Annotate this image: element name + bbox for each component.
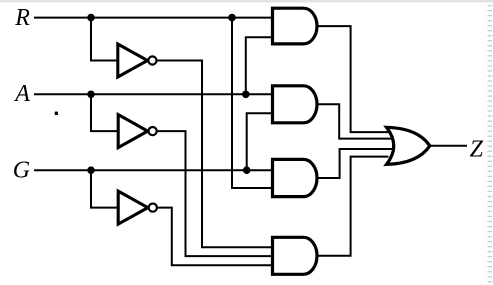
wire NOT3 input branch	[91, 170, 119, 207]
wire AND1 output to OR input 1	[316, 26, 389, 132]
node dot A to AND1	[242, 91, 250, 99]
and-gate AND1 (R·A)	[273, 8, 318, 44]
wire NOT3 output to AND4 input 3	[157, 208, 272, 266]
wire NOT1 output to AND4 input 1	[157, 61, 272, 248]
and-gate AND2 (A·G)	[273, 86, 318, 123]
wire R input line	[34, 17, 272, 19]
and-gate AND4 (R'·A'·G')	[273, 237, 317, 274]
inverter NOT3 triangle	[118, 191, 148, 224]
svg-text:A: A	[13, 81, 30, 107]
node dot A to NOT2	[87, 91, 95, 99]
svg-text:R: R	[14, 5, 30, 31]
node dot G to AND2	[243, 166, 251, 174]
inverter NOT2 triangle	[118, 115, 148, 148]
node dot G to NOT3	[87, 166, 95, 174]
wire AND2 output to OR input 2	[316, 104, 394, 138]
stray ink dot	[55, 112, 58, 115]
wire OR output to Z	[428, 145, 467, 147]
wire NOT2 output to AND4 input 2	[157, 131, 272, 256]
wire AND4 output to OR input 4	[316, 157, 389, 256]
wire G input line	[34, 169, 272, 171]
bubble NOT3	[149, 204, 157, 212]
inverter NOT1 triangle	[118, 44, 148, 77]
wire G branch to AND2 input 2	[247, 113, 272, 170]
and-gate AND3 (G·R)	[273, 159, 318, 196]
or-gate OR1 output Z	[387, 127, 430, 164]
wire A branch to AND1 input 2	[246, 37, 272, 94]
wire R branch to AND3 input 2	[232, 18, 272, 188]
wire A input line	[34, 93, 272, 95]
wire AND3 output to OR input 3	[316, 149, 394, 178]
bubble NOT2	[149, 127, 157, 135]
node dot R to NOT1	[87, 14, 95, 22]
bubble NOT1	[148, 56, 156, 64]
wire NOT2 input branch	[91, 94, 120, 131]
svg-text:Z: Z	[470, 136, 484, 162]
top gray band	[0, 0, 493, 2]
node dot R to AND3	[228, 14, 236, 22]
right edge perforation dashes	[488, 5, 493, 282]
wire NOT1 input branch	[91, 18, 119, 61]
svg-text:G: G	[13, 157, 30, 183]
